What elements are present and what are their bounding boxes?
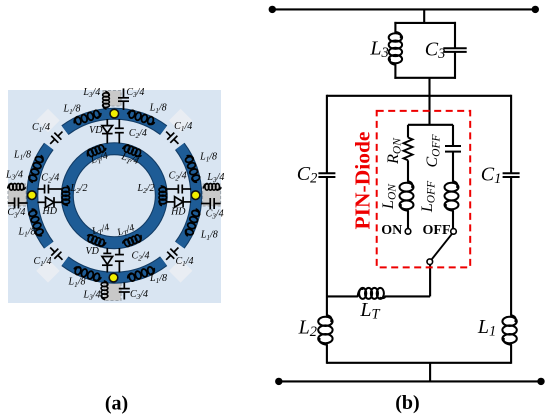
svg-text:OFF: OFF bbox=[423, 223, 451, 238]
label L3/4 right bbox=[206, 172, 224, 184]
label L3/4 left bbox=[5, 170, 23, 182]
label L3 bbox=[369, 37, 388, 61]
wire bottom rail bbox=[279, 380, 541, 382]
wire left branch foot bbox=[326, 345, 328, 364]
capacitor C2/4 (right) bbox=[167, 185, 192, 194]
svg-text:LON: LON bbox=[380, 183, 398, 210]
label L1 bbox=[477, 316, 496, 340]
substrate board bbox=[8, 90, 221, 303]
inductor L3/4 (bottom) bbox=[101, 281, 108, 300]
label C3/4 left bbox=[7, 207, 25, 219]
label L1/8 right-lower bbox=[200, 230, 218, 242]
svg-text:C1: C1 bbox=[481, 163, 502, 187]
wire left branch lower bbox=[326, 177, 328, 316]
wire LON lead bottom bbox=[407, 211, 409, 229]
capacitor C3 bbox=[443, 48, 466, 52]
wire LT right bbox=[385, 295, 430, 297]
inductor LON bbox=[400, 181, 414, 211]
node port3 bbox=[191, 191, 200, 200]
port 3 pad (right) bbox=[203, 184, 221, 206]
wire centre stub bbox=[428, 78, 430, 125]
inductor L3/4 (top) bbox=[103, 91, 110, 109]
label L1/8 top-left bbox=[63, 104, 81, 116]
node port2 bbox=[28, 191, 37, 200]
inductor L2 bbox=[318, 315, 332, 345]
svg-text:C3: C3 bbox=[425, 38, 446, 62]
label OFF bbox=[423, 223, 451, 238]
diode HD (left) bbox=[38, 197, 62, 208]
inductor L1 bbox=[502, 315, 516, 345]
label C2/4 right bbox=[169, 171, 187, 183]
label L1/8 bottom-left bbox=[68, 277, 86, 289]
contact ON bbox=[405, 229, 411, 235]
inductor L1/8 coil (top-left) bbox=[73, 109, 102, 126]
label VD bottom bbox=[86, 246, 100, 257]
svg-text:L3: L3 bbox=[369, 37, 388, 61]
label LON bbox=[380, 183, 398, 210]
label HD left bbox=[41, 206, 57, 217]
resistor RON bbox=[404, 138, 413, 161]
wire RON-LON bbox=[407, 160, 409, 181]
svg-text:HD: HD bbox=[41, 206, 57, 217]
outer ring arc (right) bbox=[180, 146, 197, 245]
svg-text:PIN-Diode: PIN-Diode bbox=[350, 132, 374, 230]
svg-text:ON: ON bbox=[381, 223, 402, 238]
outer ring arc (bottom) bbox=[65, 261, 164, 278]
wire tank bottom bbox=[394, 77, 456, 79]
caption (a) bbox=[105, 392, 128, 414]
inductor L1/8 coil (left-upper) bbox=[28, 154, 45, 183]
svg-text:COFF: COFF bbox=[424, 134, 442, 168]
corner slot bbox=[36, 259, 59, 282]
label L2/2 right bbox=[137, 183, 155, 195]
svg-text:L3/4: L3/4 bbox=[82, 87, 100, 99]
wire COFF lead top bbox=[452, 125, 454, 146]
terminal dot top-right bbox=[532, 6, 539, 13]
capacitor C1/4 (top-right) bbox=[163, 128, 182, 147]
svg-text:(b): (b) bbox=[395, 392, 419, 414]
port 4 pad (bottom) bbox=[104, 280, 121, 301]
inductor L3 bbox=[389, 32, 402, 65]
port 2 pad (left) bbox=[8, 184, 26, 206]
corner slot bbox=[169, 109, 192, 132]
inductor L1/8 coil (right-lower) bbox=[184, 208, 201, 237]
svg-text:VD: VD bbox=[89, 125, 103, 136]
node port4 bbox=[109, 273, 118, 282]
caption (b) bbox=[395, 392, 419, 414]
label C3 bbox=[425, 38, 446, 62]
label L3/4 top bbox=[82, 87, 100, 99]
svg-text:C3/4: C3/4 bbox=[126, 87, 144, 99]
inductor L3/4 (right) bbox=[203, 183, 221, 190]
corner slot bbox=[169, 259, 192, 282]
label L2 bbox=[298, 316, 317, 340]
capacitor C2/4 (bottom) bbox=[115, 248, 124, 273]
capacitor C1/4 (bottom-right) bbox=[163, 244, 182, 263]
wire COFF-LOFF bbox=[452, 152, 454, 182]
label C3/4 bottom bbox=[130, 289, 148, 301]
wire pin top bar bbox=[408, 124, 453, 126]
wire bottom connector bbox=[327, 362, 511, 364]
inductor L1/8 coil (bottom-left) bbox=[73, 266, 102, 283]
wire RON lead top bbox=[407, 125, 409, 138]
label C1/4 upper-left bbox=[32, 122, 50, 134]
wire bottom stub bbox=[429, 363, 431, 382]
label L2/2 left bbox=[70, 183, 88, 195]
wire tank left bottom bbox=[394, 64, 396, 79]
port 1 pad (top) bbox=[103, 91, 121, 107]
label PIN-Diode bbox=[350, 132, 374, 230]
capacitor C3/4 (right) bbox=[201, 198, 221, 209]
inductor LT/4 bottom-left coil bbox=[86, 233, 107, 247]
diode VD (bottom) bbox=[102, 248, 113, 273]
diode HD (right) bbox=[167, 197, 192, 208]
label C3/4 top bbox=[126, 87, 144, 99]
label COFF bbox=[424, 134, 442, 168]
capacitor C3/4 (left) bbox=[8, 198, 28, 209]
terminal dot top-left bbox=[269, 6, 276, 13]
inductor LT bbox=[358, 288, 386, 299]
inductor L1/8 coil (top-right) bbox=[127, 109, 156, 126]
label C2/4 top bbox=[129, 128, 147, 140]
svg-text:L2: L2 bbox=[298, 316, 317, 340]
inductor L3/4 (left) bbox=[8, 183, 26, 190]
capacitor C3/4 (top) bbox=[118, 88, 129, 110]
label L3/4 bottom bbox=[83, 290, 101, 302]
label C1/4 upper-right bbox=[174, 121, 192, 133]
wire top rail bbox=[272, 8, 535, 10]
wire LT left bbox=[327, 295, 358, 297]
wire top stub bbox=[423, 9, 425, 23]
label C2/4 left bbox=[41, 173, 59, 185]
capacitor C3/4 (bottom) bbox=[119, 283, 130, 300]
wire right branch upper bbox=[510, 95, 512, 173]
wire tank right bottom bbox=[454, 52, 456, 79]
outer ring arc (top) bbox=[65, 114, 164, 131]
wire right branch foot bbox=[510, 345, 512, 364]
label LT/4 bottom-right bbox=[115, 223, 136, 240]
label VD top bbox=[89, 125, 103, 136]
label ON bbox=[381, 223, 402, 238]
svg-text:HD: HD bbox=[170, 207, 186, 218]
inductor LT/4 top-right coil bbox=[122, 144, 143, 158]
label C1/4 lower-right bbox=[175, 256, 193, 268]
capacitor COFF bbox=[445, 146, 461, 152]
wire tank right top bbox=[454, 22, 456, 48]
wire mid rail bbox=[327, 95, 511, 97]
svg-text:L1: L1 bbox=[477, 316, 496, 340]
wire left branch upper bbox=[326, 95, 328, 173]
label RON bbox=[385, 137, 403, 165]
contact OFF bbox=[451, 229, 457, 235]
label LT/4 top-left bbox=[89, 151, 110, 168]
label LT/4 top-right bbox=[119, 151, 140, 168]
label C1/4 lower-left bbox=[33, 256, 51, 268]
label C1 bbox=[481, 163, 502, 187]
svg-text:C2: C2 bbox=[297, 163, 318, 187]
svg-text:(a): (a) bbox=[105, 392, 128, 414]
label LT/4 bottom-left bbox=[90, 222, 111, 238]
capacitor C1 bbox=[503, 173, 520, 177]
svg-text:LOFF: LOFF bbox=[419, 180, 437, 213]
inductor L1/8 coil (right-upper) bbox=[184, 154, 201, 183]
inductor L2/2 right coil bbox=[159, 186, 167, 206]
corner slot bbox=[36, 109, 59, 132]
wire tank left top bbox=[394, 22, 396, 33]
wire tank top bbox=[394, 22, 456, 24]
inductor L2/2 left coil bbox=[62, 186, 70, 206]
label LOFF bbox=[419, 180, 437, 213]
switch pole bbox=[427, 259, 433, 265]
label C3/4 right bbox=[206, 209, 224, 221]
inductor LT/4 top-left coil bbox=[86, 144, 107, 158]
label LT bbox=[359, 299, 380, 323]
label C2 bbox=[297, 163, 318, 187]
inductor LT/4 bottom-right coil bbox=[122, 233, 143, 247]
switch arm bbox=[432, 234, 453, 260]
inductor LOFF bbox=[445, 181, 459, 211]
capacitor C2/4 (top) bbox=[115, 119, 124, 143]
outer ring arc (left) bbox=[32, 146, 49, 245]
svg-text:RON: RON bbox=[385, 137, 403, 165]
wire LOFF lead bottom bbox=[452, 211, 454, 229]
inductor L1/8 coil (bottom-right) bbox=[127, 266, 156, 283]
capacitor C2 bbox=[318, 173, 335, 177]
capacitor C1/4 (bottom-left) bbox=[47, 244, 66, 263]
capacitor C2/4 (left) bbox=[38, 185, 62, 194]
capacitor C1/4 (top-left) bbox=[47, 128, 66, 147]
PIN-diode box bbox=[377, 111, 471, 268]
svg-text:LT: LT bbox=[359, 299, 380, 323]
label L1/8 top-right bbox=[149, 103, 167, 115]
label L1/8 bottom-right bbox=[149, 273, 167, 285]
terminal dot bottom-left bbox=[275, 378, 282, 385]
label HD right bbox=[170, 207, 186, 218]
wire right branch lower bbox=[510, 177, 512, 316]
label L1/8 left-lower bbox=[18, 227, 36, 239]
inductor L1/8 coil (left-lower) bbox=[28, 208, 45, 237]
node port1 bbox=[110, 109, 119, 118]
wire switch pole riser bbox=[429, 264, 431, 296]
diode VD (top) bbox=[102, 119, 113, 143]
label L1/8 left-upper bbox=[13, 150, 31, 162]
terminal dot bottom-right bbox=[537, 378, 544, 385]
label C2/4 bottom bbox=[131, 251, 149, 263]
svg-text:VD: VD bbox=[86, 246, 100, 257]
inner ring bbox=[67, 149, 161, 243]
label L1/8 right-upper bbox=[199, 152, 217, 164]
